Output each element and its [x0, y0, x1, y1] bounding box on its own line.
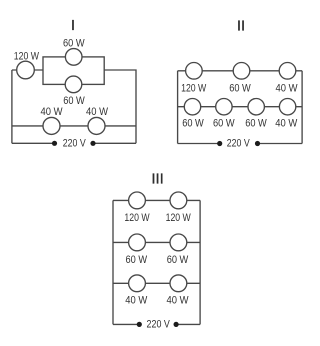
svg-text:40 W: 40 W — [41, 106, 63, 118]
svg-text:60 W: 60 W — [229, 82, 251, 94]
svg-text:120 W: 120 W — [166, 212, 191, 224]
svg-text:40 W: 40 W — [167, 294, 189, 306]
svg-text:60 W: 60 W — [63, 95, 85, 107]
svg-text:60 W: 60 W — [63, 38, 85, 50]
svg-text:120 W: 120 W — [181, 82, 206, 94]
svg-text:40 W: 40 W — [275, 117, 297, 129]
svg-text:II: II — [237, 18, 245, 35]
svg-text:III: III — [151, 171, 164, 188]
svg-text:60 W: 60 W — [126, 254, 148, 266]
svg-text:60 W: 60 W — [213, 117, 235, 129]
svg-text:220 V: 220 V — [147, 318, 171, 330]
svg-text:40 W: 40 W — [125, 294, 147, 306]
svg-text:220 V: 220 V — [63, 137, 87, 149]
svg-text:I: I — [71, 17, 75, 34]
svg-text:60 W: 60 W — [182, 117, 204, 129]
svg-text:40 W: 40 W — [276, 82, 298, 94]
svg-text:60 W: 60 W — [167, 254, 189, 266]
svg-text:120 W: 120 W — [124, 212, 149, 224]
svg-text:40 W: 40 W — [86, 106, 108, 118]
svg-text:120 W: 120 W — [14, 50, 39, 62]
svg-text:220 V: 220 V — [227, 138, 251, 150]
svg-text:60 W: 60 W — [245, 117, 267, 129]
